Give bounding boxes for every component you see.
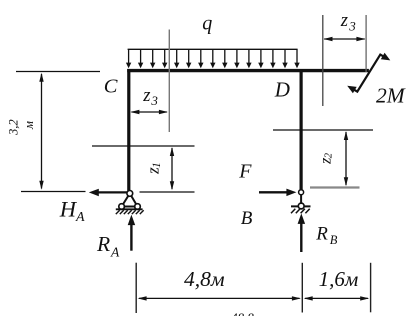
dimension 4,8m arrow <box>139 297 300 299</box>
moment 2M zigzag arrow <box>350 55 388 92</box>
wire: load arrow 14 <box>284 49 286 63</box>
svg-text:C: C <box>104 76 118 98</box>
svg-text:1,6м: 1,6м <box>319 267 359 291</box>
wire: load arrow 10 <box>236 49 238 63</box>
dimension tick right <box>370 263 372 313</box>
support B ground line <box>291 205 311 207</box>
svg-text:H: H <box>59 197 78 222</box>
svg-text:F: F <box>238 161 252 183</box>
force H_A arrow <box>97 191 127 193</box>
support B hatching <box>291 209 310 214</box>
wire: load arrow 15 <box>296 49 298 63</box>
wire: left column A-C <box>127 69 130 191</box>
support A roller circle right <box>135 204 141 210</box>
dimension z3 (left) arrow <box>132 111 167 113</box>
wire: load arrow 6 <box>188 49 190 63</box>
svg-text:2: 2 <box>323 152 334 158</box>
wire: load arrow 9 <box>224 49 226 63</box>
svg-text:3,2: 3,2 <box>6 119 20 136</box>
wire: load arrow 8 <box>212 49 214 63</box>
node z2 label (rotated) <box>318 152 335 165</box>
svg-text:D: D <box>274 78 290 102</box>
dimension z1 : lower reference line <box>140 191 195 193</box>
wire: load arrow 13 <box>272 49 274 63</box>
svg-text:R: R <box>315 223 328 244</box>
wire: top beam C-D <box>127 69 369 72</box>
svg-text:q: q <box>202 13 212 35</box>
wire: load arrow 2 <box>140 49 142 63</box>
dimension z1 : vertical arrow <box>171 148 173 189</box>
svg-text:м: м <box>22 121 36 130</box>
wire: load arrow 5 <box>176 49 178 63</box>
support B pin circle <box>299 190 304 195</box>
dimension z2 : upper reference line <box>273 129 373 131</box>
dimension z1 : upper reference line <box>92 145 195 147</box>
node: section line z3 right (left boundary) <box>322 15 324 106</box>
svg-text:48,8: 48,8 <box>231 310 254 316</box>
wire: load arrow 1 <box>128 49 130 63</box>
node: section line z3 left <box>168 30 170 133</box>
dimension 3,2m : bottom reference line <box>21 191 86 193</box>
support A roller circle left <box>119 204 125 210</box>
wire: load arrow 11 <box>248 49 250 63</box>
dimension z2 : lower reference line (grey) <box>310 186 360 188</box>
reaction R_A arrow <box>130 224 132 251</box>
svg-text:z: z <box>142 86 150 106</box>
svg-text:R: R <box>96 232 110 256</box>
wire: load arrow 3 <box>152 49 154 63</box>
support A pin circle <box>127 191 133 197</box>
svg-text:z: z <box>340 11 348 31</box>
dimension z3 (right) arrow <box>324 38 365 40</box>
svg-text:4,8м: 4,8м <box>184 267 225 291</box>
dimension 1,6m arrow <box>305 297 368 299</box>
dimension tick middle <box>301 263 303 313</box>
node z1 label (rotated) <box>143 162 163 175</box>
support A hatching <box>116 210 144 214</box>
svg-text:B: B <box>330 233 338 247</box>
svg-text:2M: 2M <box>376 84 406 108</box>
dimension z2 : vertical arrow <box>345 132 347 185</box>
support A ground line <box>116 208 143 210</box>
force F arrow <box>259 191 288 193</box>
wire: load arrow 12 <box>260 49 262 63</box>
support A triangle legs <box>122 193 138 206</box>
dimension 3,2m : top reference line <box>16 71 100 73</box>
svg-text:3: 3 <box>348 19 356 34</box>
support B roller circle <box>298 203 304 209</box>
svg-text:B: B <box>241 208 253 229</box>
dimension 3,2m : vertical arrow <box>41 74 43 189</box>
svg-text:A: A <box>110 244 120 259</box>
node: section line z3 right (right boundary) <box>365 15 367 72</box>
wire: right column B-D <box>300 69 303 190</box>
wire: load arrow 4 <box>164 49 166 63</box>
svg-text:3: 3 <box>150 93 158 108</box>
wire: load arrow 7 <box>200 49 202 63</box>
svg-text:A: A <box>75 210 85 225</box>
dimension tick left <box>135 263 137 313</box>
support B link <box>300 193 302 205</box>
svg-text:1: 1 <box>151 162 163 168</box>
distributed load q : top line <box>128 48 298 50</box>
reaction R_B arrow <box>300 223 302 253</box>
